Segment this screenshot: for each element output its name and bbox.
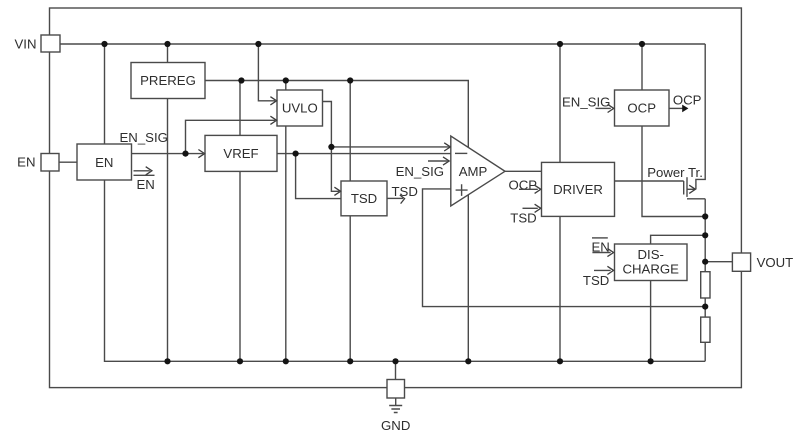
- svg-text:OCP: OCP: [673, 93, 702, 108]
- wire DRIVER feed and ground vertical: [559, 44, 561, 361]
- label OCP output with arrow: [669, 93, 702, 113]
- resistor R2: [701, 317, 710, 342]
- wire feedback from divider to AMP plus input: [423, 189, 706, 307]
- node rail-DISCHARGE junction: [648, 358, 654, 364]
- label TSD into DISCHARGE with arrow: [583, 266, 614, 288]
- svg-text:VREF: VREF: [223, 146, 258, 161]
- svg-text:AMP: AMP: [459, 164, 488, 179]
- label TSD output with arrow: [392, 184, 418, 204]
- transistor Power Tr. MOSFET: [684, 177, 696, 197]
- wire EN_SIG riser to UVLO input 2: [186, 120, 276, 153]
- block OCP: [615, 90, 670, 126]
- node rail-VREF junction: [237, 358, 243, 364]
- block PREREG: [131, 63, 205, 99]
- block UVLO: [277, 90, 323, 126]
- wire DISCHARGE top to output node: [651, 235, 706, 244]
- pin VIN: [15, 35, 60, 52]
- arrowhead into TSD: [334, 187, 340, 195]
- wire power transistor source down the divider chain: [687, 199, 705, 361]
- svg-text:TSD: TSD: [351, 191, 377, 206]
- wire OCP bottom to output node: [642, 126, 705, 217]
- node VREF-TSD junction: [293, 151, 299, 157]
- arrowhead AMP input 1: [444, 143, 450, 151]
- node UVLO-AMP junction: [328, 144, 334, 150]
- wire UVLO feed and ground vertical: [285, 81, 287, 362]
- wire PREREG output rail with drop to ground rail: [205, 81, 468, 362]
- svg-text:OCP: OCP: [627, 101, 656, 116]
- wire output node to VOUT pin: [705, 261, 732, 263]
- node discharge tap junction: [702, 232, 708, 238]
- svg-text:EN: EN: [95, 155, 113, 170]
- wire VREF output to AMP input 2: [277, 153, 451, 155]
- node VIN-left junction: [101, 41, 107, 47]
- label EN_SIG into OCP with arrow: [562, 95, 614, 113]
- label EN-bar into DISCHARGE with arrow: [592, 238, 614, 257]
- svg-text:TSD: TSD: [583, 273, 609, 288]
- node PREREG-TSD junction: [347, 77, 353, 83]
- pin VOUT: [732, 253, 793, 271]
- wire VREF branch to TSD input 2: [296, 154, 341, 199]
- wire VIN rail drop to power transistor drain: [696, 44, 705, 189]
- block TSD: [341, 181, 387, 216]
- svg-text:EN_SIG: EN_SIG: [120, 130, 168, 145]
- node VIN-UVLO junction: [255, 41, 261, 47]
- svg-text:EN: EN: [137, 177, 155, 192]
- svg-text:Power Tr.: Power Tr.: [647, 165, 703, 180]
- wire DRIVER output to gate: [615, 180, 684, 182]
- wire GND pin drop: [395, 361, 397, 379]
- node feedback tap junction: [702, 304, 708, 310]
- wire TSD feed and ground vertical: [349, 81, 351, 362]
- wire left vertical and bottom ground rail: [105, 44, 706, 361]
- block DRIVER: [542, 162, 615, 216]
- node VIN-DRIVER junction: [557, 41, 563, 47]
- IC boundary frame: [50, 8, 742, 388]
- svg-text:DIS-: DIS-: [638, 247, 664, 262]
- op-amp AMP: [451, 136, 505, 206]
- pin EN: [17, 154, 59, 172]
- block VREF: [205, 135, 277, 171]
- label OCP into DRIVER with arrow: [509, 177, 541, 193]
- svg-text:OCP: OCP: [509, 177, 538, 192]
- wire PREREG feed and ground vertical: [167, 44, 169, 361]
- wire AMP output to DRIVER: [505, 170, 542, 172]
- wire TSD output arrow: [387, 197, 403, 199]
- node PREREG-UVLO junction: [283, 77, 289, 83]
- svg-text:UVLO: UVLO: [282, 101, 318, 116]
- node PREREG-VREF junction: [238, 77, 244, 83]
- node rail-TSD junction: [347, 358, 353, 364]
- arrowhead into VREF: [198, 150, 204, 158]
- node VIN-PREREG junction: [164, 41, 170, 47]
- wire UVLO output to TSD input 1: [323, 102, 340, 192]
- node VOUT junction: [702, 259, 708, 265]
- wire EN pin to EN block: [59, 161, 77, 163]
- wire EN_SIG from EN block to VREF: [132, 153, 204, 155]
- svg-text:VIN: VIN: [15, 36, 37, 51]
- node rail-GND junction: [392, 358, 398, 364]
- wire VIN to UVLO input 1: [258, 44, 275, 101]
- arrowhead UVLO input 1: [270, 97, 276, 105]
- pin GND: [381, 380, 410, 434]
- node VIN-OCP junction: [639, 41, 645, 47]
- svg-text:TSD: TSD: [392, 184, 418, 199]
- svg-text:EN_SIG: EN_SIG: [396, 164, 444, 179]
- wire OCP feed from VIN rail: [641, 44, 643, 90]
- svg-text:EN_SIG: EN_SIG: [562, 95, 610, 110]
- node EN_SIG junction: [182, 151, 188, 157]
- node transistor source junction: [702, 213, 708, 219]
- node rail-PREREG junction: [164, 358, 170, 364]
- svg-text:GND: GND: [381, 418, 410, 433]
- svg-text:CHARGE: CHARGE: [622, 262, 679, 277]
- node rail-DRIVER junction: [557, 358, 563, 364]
- label EN_SIG at AMP with arrow: [396, 157, 450, 179]
- block EN: [77, 144, 132, 180]
- label TSD-bar into DRIVER with arrow: [510, 204, 541, 225]
- block DISCHARGE: [615, 244, 688, 281]
- svg-text:TSD: TSD: [510, 210, 536, 225]
- svg-text:EN: EN: [17, 155, 35, 170]
- arrowhead UVLO input 2: [270, 116, 276, 124]
- label EN-bar under EN block with arrow: [134, 167, 155, 192]
- svg-text:PREREG: PREREG: [140, 73, 196, 88]
- node rail-UVLO junction: [283, 358, 289, 364]
- resistor R1: [701, 272, 710, 298]
- wire DISCHARGE ground vertical: [650, 281, 652, 362]
- svg-text:DRIVER: DRIVER: [553, 182, 603, 197]
- svg-text:VOUT: VOUT: [757, 255, 794, 270]
- wire VIN top rail: [60, 43, 705, 45]
- wire UVLO output branch to AMP input 1: [331, 146, 448, 148]
- node rail-PREREGdrop junction: [465, 358, 471, 364]
- wire EN_SIG arrow into AMP input 3: [428, 160, 448, 162]
- ground symbol: [389, 398, 402, 413]
- wire VREF feed and ground vertical: [239, 81, 241, 362]
